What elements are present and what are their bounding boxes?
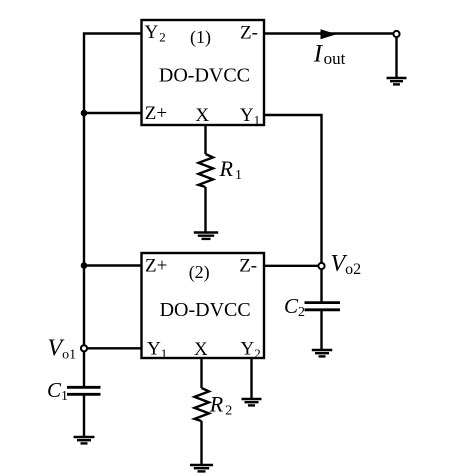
svg-text:DO-DVCC: DO-DVCC bbox=[160, 299, 251, 321]
svg-text:Z+: Z+ bbox=[145, 256, 167, 277]
svg-text:X: X bbox=[194, 339, 208, 360]
svg-text:(2): (2) bbox=[189, 262, 210, 283]
svg-text:DO-DVCC: DO-DVCC bbox=[159, 65, 250, 87]
svg-text:Z-: Z- bbox=[239, 256, 257, 277]
svg-text:Z+: Z+ bbox=[145, 103, 167, 124]
svg-text:(1): (1) bbox=[190, 27, 211, 48]
svg-text:X: X bbox=[195, 105, 209, 126]
svg-text:Z-: Z- bbox=[240, 23, 258, 44]
